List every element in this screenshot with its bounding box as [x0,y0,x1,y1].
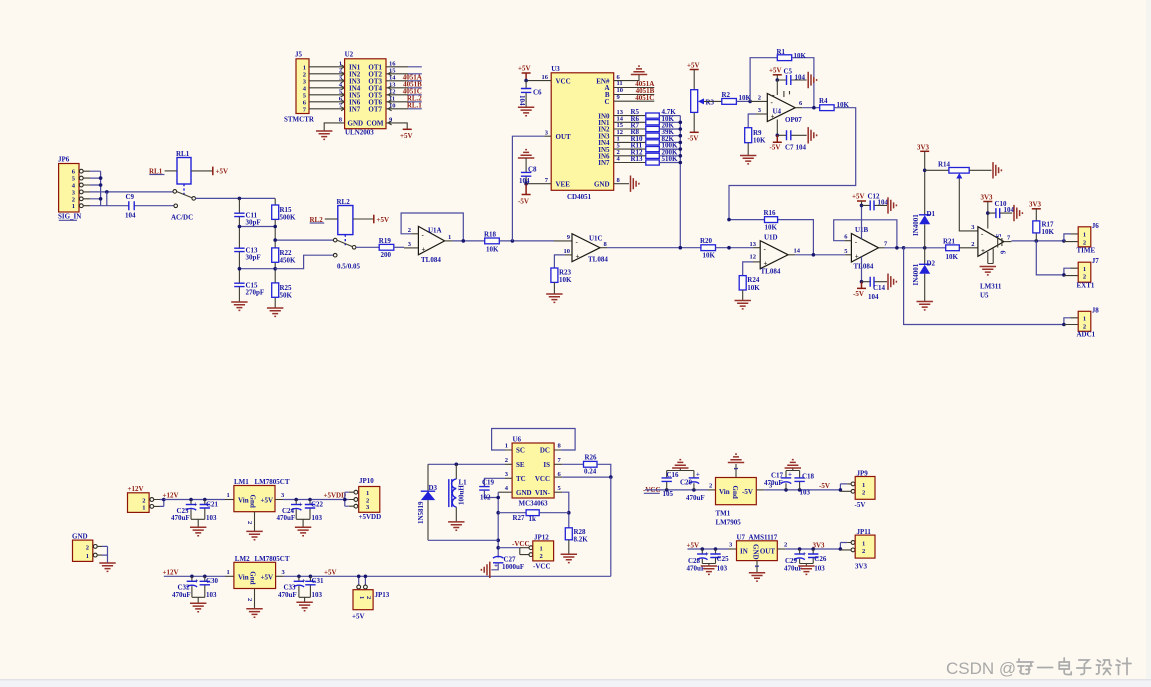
diode D1 IN4001 [912,210,936,236]
svg-text:10K: 10K [1042,228,1055,236]
connector +12V input [128,485,150,512]
svg-text:+: + [299,500,303,508]
wire D3 bottom rail to GND vertical [428,539,498,541]
svg-text:2: 2 [365,596,372,599]
U4 output wire to R4 [795,107,802,109]
wire RL2 switch to R19 [356,246,379,248]
svg-text:104: 104 [1004,206,1015,214]
bus vertical at JP6 [100,171,102,206]
wire R27 row [498,512,569,514]
svg-text:-5V: -5V [688,134,699,142]
ground above C16 C20 [667,468,694,471]
svg-text:1: 1 [366,490,369,497]
ground right of C12 [888,197,896,213]
svg-text:EXT1: EXT1 [1077,282,1095,290]
svg-text:C30: C30 [206,577,219,585]
relay RL1 [176,150,191,184]
U1B power rail vertical [861,205,863,281]
resistor R8 39K [631,128,675,138]
ground at U2 pin 8 [316,131,332,139]
svg-text:1: 1 [358,596,365,599]
svg-text:Gnd: Gnd [249,495,257,508]
resistor R5 4.7K [631,108,677,118]
-5V and C7 at U4 [770,120,807,152]
connector JP11 [855,528,875,571]
svg-text:2: 2 [408,227,411,234]
svg-text:+5V: +5V [400,132,413,140]
svg-text:2: 2 [303,71,306,78]
ground right of C5 [808,72,816,88]
svg-text:-5V: -5V [770,143,781,151]
svg-text:C: C [604,98,609,106]
svg-text:1: 1 [1083,232,1086,239]
svg-text:3V3: 3V3 [917,144,930,152]
resistor R4 10K [819,97,850,110]
IC U2 ULN2003 [345,51,386,137]
ground left of C27 [481,562,489,578]
+5V power bar RL2 [374,215,389,224]
U2 GND pin 8 wire [324,123,344,131]
resistor R23 10K [551,268,572,284]
svg-text:J8: J8 [1092,306,1100,314]
svg-text:VIN-: VIN- [535,489,551,497]
wires to JP11 [840,543,847,550]
svg-text:SC: SC [516,447,525,455]
svg-text:R2: R2 [722,91,731,99]
ground below C15 [231,302,247,310]
U1B output wire [879,247,885,249]
svg-text:R20: R20 [700,237,713,245]
svg-text:4051C: 4051C [635,94,654,102]
svg-text:470uF: 470uF [172,591,191,599]
connector GND input [72,533,93,562]
svg-text:+: + [301,577,305,585]
op-amp U1B TL084 [844,226,888,271]
resistor R24 10K [739,276,760,292]
LM311 output wire [1004,241,1012,243]
IC U6 MC34063 [512,435,554,507]
svg-text:200: 200 [381,251,392,259]
LM311 pins 1,4 to ground [988,249,993,264]
connector J5 STMCTR [284,51,315,124]
svg-text:U2: U2 [345,51,354,59]
U6 top loop pin1 to pin8 [505,449,561,451]
resistor R9 10K [745,128,766,145]
U3 GND pin8 wire to right ground [614,183,629,185]
svg-text:1000uF: 1000uF [502,563,524,571]
capacitor C11 30pF [234,211,260,226]
svg-text:13: 13 [750,241,757,248]
svg-text:+: + [788,471,792,479]
U1D output wire [788,254,795,256]
svg-text:+: + [705,550,709,558]
svg-text:+5V: +5V [377,216,390,224]
svg-text:U7: U7 [737,533,746,541]
wire RL2 to +5V [353,218,374,220]
U1B feedback loop [844,240,851,242]
op-amp U1C TL084 [564,234,609,264]
svg-text:100uH: 100uH [458,485,466,505]
diode D2 IN4001 [912,260,936,286]
svg-text:3V3: 3V3 [981,194,994,202]
RL2 switch blade [337,240,352,246]
resistor R11 100K [631,142,679,152]
capacitor C16 105 [662,471,680,498]
svg-text:C9: C9 [126,193,135,201]
comparator U5 LM311 [971,224,1011,299]
svg-text:RL2: RL2 [337,198,351,206]
svg-text:1: 1 [227,492,230,499]
svg-text:J5: J5 [295,51,303,59]
svg-text:1: 1 [732,467,739,470]
svg-text:LM311: LM311 [980,282,1002,290]
svg-text:CSDN @: CSDN @ [946,659,1016,678]
svg-text:D1: D1 [927,210,936,218]
svg-text:2: 2 [862,548,865,555]
red label RL2 with wire [310,216,338,224]
U6 SE pin2 wire to D3 and L1 [505,463,512,465]
wire down to J7 [1036,241,1070,275]
svg-text:104: 104 [795,73,806,81]
svg-text:2: 2 [86,544,89,551]
svg-text:JP10: JP10 [359,477,374,485]
tap wire lower to RL2 switch [275,255,333,269]
svg-text:C21: C21 [206,500,219,508]
wire R26 to VCC junction [597,464,611,477]
U1C output wire to R20 [600,247,607,249]
svg-text:102: 102 [480,494,491,502]
svg-text:1: 1 [753,565,760,568]
wires J5 pins 1-7 to U2 IN1-IN7 [309,67,345,109]
3V3 power top of diode rail [917,144,930,171]
ground below C32 C30 [192,597,205,603]
svg-text:30pF: 30pF [246,218,261,226]
svg-text:+5V: +5V [687,61,700,69]
svg-text:1: 1 [72,203,75,210]
+5V power at U3 VCC [518,65,531,81]
svg-text:CD4051: CD4051 [567,193,592,201]
svg-text:TC: TC [516,475,526,483]
tap wire upper to RL2 switch [275,239,333,241]
svg-text:C25: C25 [717,555,730,563]
wires to J6 [1064,234,1071,241]
svg-text:+5V: +5V [518,65,531,73]
svg-text:2: 2 [540,553,543,560]
svg-text:R14: R14 [938,160,951,168]
U1A output wire [445,240,453,242]
U2 left pin numbers 1-7 [339,60,343,109]
wires +12V connector to rail [154,500,160,507]
svg-text:D2: D2 [927,260,936,268]
svg-text:R4: R4 [819,97,828,105]
connector JP10 [359,477,382,521]
svg-text:470uF: 470uF [171,514,190,522]
svg-text:2: 2 [142,497,145,504]
svg-text:JP11: JP11 [857,528,872,536]
resistor R16 10K [764,209,778,232]
svg-text:-5V: -5V [518,198,529,206]
svg-text:AMS1117: AMS1117 [749,533,778,541]
svg-text:+5VDD: +5VDD [359,513,382,521]
3V3 and resistor R17 10K [1029,201,1055,241]
RL2 switch dashed actuator [344,235,346,246]
U1D pin12 wire to R24 [753,261,760,263]
TM1 output wire [756,489,764,491]
+5V rail to U7 [688,548,729,550]
resistor R26 0.24 [584,454,598,476]
ground below R9 [747,143,749,156]
svg-text:J7: J7 [1092,257,1100,265]
regulator U7 AMS1117 [737,533,778,560]
resistor R15 500K [272,205,296,221]
svg-text:Vin: Vin [238,497,249,505]
resistor R27 1k [513,510,540,523]
svg-text:C18: C18 [802,473,815,481]
capacitor C13 30pF [234,246,260,261]
svg-text:OUT: OUT [556,133,572,141]
JP13 stubs from +5V rail [359,576,366,585]
svg-text:1: 1 [1083,316,1086,323]
-VCC rail to TM1 [645,489,708,491]
svg-text:12: 12 [750,253,757,260]
-5V power below C8 [518,184,531,206]
svg-text:C22: C22 [311,500,324,508]
svg-text:11: 11 [617,80,623,87]
svg-text:U5: U5 [980,291,989,299]
svg-text:470uF: 470uF [686,494,705,502]
svg-text:103: 103 [206,591,217,599]
svg-text:103: 103 [717,564,728,572]
wire CD4051 OUT down to R18 node [512,136,544,241]
svg-text:Gnd: Gnd [249,571,257,584]
svg-text:+: + [494,562,498,570]
svg-text:STMCTR: STMCTR [284,116,315,124]
svg-text:2: 2 [1083,323,1086,330]
svg-text:IN4001: IN4001 [912,263,920,285]
svg-text:1: 1 [86,553,89,560]
+12V rail to LM2 [164,575,225,577]
svg-text:VCC: VCC [556,77,571,85]
svg-text:103: 103 [814,564,825,572]
svg-text:+5V: +5V [324,568,337,576]
GND connector pin circles [93,545,97,549]
svg-text:U4: U4 [773,107,782,115]
ground below L1 [448,522,464,530]
U1A feedback wire [401,213,463,241]
U3 IN0-IN7 stubs [614,116,646,163]
RL1 switch contacts AC/DC [173,190,177,194]
R1 feedback loop [750,58,814,108]
svg-text:1: 1 [862,482,865,489]
svg-text:R26: R26 [585,454,598,462]
svg-text:TIME: TIME [1077,247,1096,255]
wire C9 line [101,205,174,207]
svg-text:U1A: U1A [428,226,442,234]
svg-text:TL084: TL084 [854,263,874,271]
svg-text:VEE: VEE [556,180,571,188]
svg-text:1: 1 [505,443,508,450]
capacitor C8 104 [519,158,537,185]
wire R19 to U1A pin3 [394,246,404,248]
connector J7 EXT1 [1077,257,1100,290]
resistor R25 50K [272,283,293,299]
electrolytic capacitor C23 470uF [171,498,198,522]
red label RL1 with wire [149,167,177,175]
svg-text:14: 14 [794,247,801,254]
-VCC net label output [643,486,661,494]
watermark CSDN [946,659,1016,678]
ground below D2 [917,302,933,310]
regulator LM2 LM7805CT [234,555,290,589]
svg-text:8.2K: 8.2K [574,536,589,544]
svg-text:+5V: +5V [216,168,229,176]
svg-text:LM2: LM2 [235,555,250,563]
svg-text:103: 103 [312,514,323,522]
right page edge [1146,0,1151,687]
svg-text:+: + [855,253,859,261]
svg-text:+12V: +12V [163,492,179,500]
svg-text:-5V: -5V [819,482,830,490]
svg-text:+: + [194,500,198,508]
regulator TM1 LM7905 [716,478,757,527]
resistor R7 20K [631,122,675,132]
ground below R28 [568,540,570,554]
svg-text:0.24: 0.24 [584,468,597,476]
svg-text:-VCC: -VCC [533,563,551,571]
U6 VIN- pin5 wire to R28 [554,491,562,493]
svg-text:C14: C14 [873,284,886,292]
wire switch output to ladder [196,197,276,199]
svg-text:SE: SE [516,461,525,469]
svg-text:VCC: VCC [535,475,550,483]
capacitor C26 103 [808,547,827,572]
svg-text:TL084: TL084 [421,256,441,264]
svg-text:3V3: 3V3 [855,563,868,571]
JP10 bus [345,492,349,506]
svg-text:GND: GND [516,489,532,497]
svg-text:TL084: TL084 [588,255,608,263]
svg-text:LM7805CT: LM7805CT [255,555,290,563]
svg-text:2: 2 [339,67,342,74]
resistor R6 10K [631,115,675,125]
U6 pin numbers [505,443,562,492]
LM2 output wire +5V rail [276,575,284,577]
electrolytic capacitor C20 470uF [680,471,705,503]
svg-text:IN4001: IN4001 [912,214,920,236]
RL2 switch contacts [333,238,337,242]
wire down to C9 line [106,192,108,206]
svg-text:Vin: Vin [238,573,249,581]
capacitor C31 103 [305,575,324,599]
LM311 pin8 to 3V3 and C10 [981,194,1015,229]
op-amp U1D TL084 [750,233,801,275]
U6 VCC pin6 wire [554,476,562,478]
wire VCC junction down to +5V rail [610,477,612,576]
svg-text:+5V: +5V [852,193,865,201]
svg-text:1: 1 [540,545,543,552]
svg-text:U3: U3 [551,65,560,73]
svg-text:JP12: JP12 [534,534,549,542]
+5V power bar at COM [403,128,412,130]
electrolytic capacitor C32 470uF [172,575,198,599]
U4 pin3 wire to R9 [756,113,767,115]
svg-text:+: + [764,260,768,268]
diode rail vertical [924,170,926,301]
connector J6 TIME [1077,222,1100,255]
capacitor C6 104 [518,79,542,108]
svg-text:470uF: 470uF [278,591,297,599]
svg-text:104: 104 [868,293,879,301]
svg-text:R27: R27 [513,514,526,522]
svg-text:R13: R13 [631,155,644,163]
capacitor C15 270pF [234,281,264,296]
svg-text:R19: R19 [379,237,392,245]
svg-text:104: 104 [796,143,807,151]
svg-text:+5V: +5V [261,497,274,505]
svg-text:10K: 10K [703,252,716,260]
svg-text:+12V: +12V [163,569,179,577]
U6 IS pin7 wire to R26 [554,463,562,465]
potentiometer R3 [687,61,715,142]
svg-text:1: 1 [448,234,451,241]
connector JP9 [855,469,876,509]
electrolytic capacitor C28 470uF [687,547,709,572]
resistor R1 10K [777,48,807,61]
wire R2 to U4 pin2 [736,100,750,102]
resistor rail [274,198,276,308]
svg-text:GND: GND [348,120,364,128]
capacitor C18 103 [794,471,814,497]
svg-text:C6: C6 [533,89,542,97]
electrolytic capacitor C29 470uF [784,547,806,572]
svg-text:JP6: JP6 [58,156,70,164]
svg-text:1N5819: 1N5819 [417,501,425,524]
ground below C28 C25 [702,564,715,567]
svg-text:C26: C26 [814,555,827,563]
svg-text:500K: 500K [280,213,297,221]
resistor R22 450K [272,248,296,264]
capacitor C22 103 [305,498,324,522]
svg-text:6: 6 [999,251,1007,255]
svg-text:+: + [194,577,198,585]
wire to JP12 [498,547,520,549]
wire RL1 to +5V [191,170,213,172]
op-amp U4 OP07 [758,91,803,124]
capacitor C30 103 [200,575,219,599]
ground below R24 [742,290,744,301]
wires to JP9 [840,484,847,490]
svg-text:104: 104 [518,95,526,106]
resistor R10 82K [631,135,675,145]
resistor bus down to U1C output [679,116,681,248]
ground below R23 [553,282,555,294]
connector JP6 SIG_IN [58,156,81,221]
capacitor ladder rail [238,198,240,302]
svg-text:2: 2 [246,598,253,601]
svg-text:2: 2 [784,542,787,549]
svg-text:+: + [696,471,700,479]
svg-text:ULN2003: ULN2003 [345,129,374,137]
svg-text:3V3: 3V3 [1029,201,1042,209]
ground above C17 C18 [786,468,800,471]
+5V power bar RL1 [213,167,228,176]
svg-text:R1: R1 [777,48,786,56]
diode D3 1N5819 [417,464,438,540]
wires JP6 pins to bus [90,171,101,206]
svg-text:+5V: +5V [352,612,365,620]
svg-text:10K: 10K [486,245,499,253]
ground below C23 C21 [191,519,205,527]
